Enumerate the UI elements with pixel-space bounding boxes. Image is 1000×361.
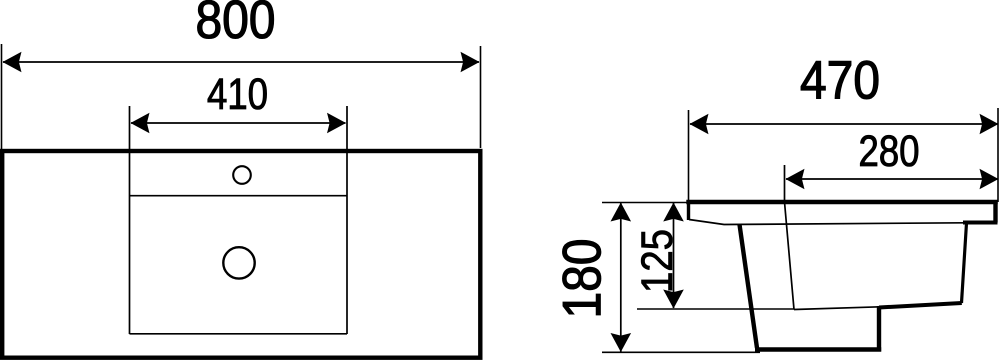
slab right edge (993, 200, 997, 223)
dimension 125: bottom arrowhead (663, 290, 684, 309)
outer rect (basin outline, top view) (2, 151, 480, 358)
inner basin divider line (130, 195, 348, 197)
bowl inner left edge (thin slant) + 280 left extension (785, 165, 795, 310)
dimension 410: left arrowhead (131, 113, 150, 134)
slab underside right (thick silhouette) (963, 221, 998, 225)
inner basin right edge + 410 right extension line (346, 106, 348, 334)
dimension 410: right arrowhead (327, 113, 346, 134)
bowl outer left edge (thick slant) (740, 225, 758, 349)
dimension 180: dimension line (620, 203, 622, 352)
dimension 280: dimension line (786, 178, 998, 180)
dimension 180: top arrowhead (611, 203, 632, 222)
dimension 800: label text (198, 0, 274, 38)
dimension 800: right arrowhead (461, 52, 480, 73)
drain hole (large circle) (223, 247, 254, 278)
dimension 470: left extension line (688, 110, 690, 200)
slab left edge (687, 200, 690, 220)
dimension 470: right extension line (997, 108, 999, 202)
dimension 180: bottom extension line (602, 351, 760, 353)
dimension 180/125: top extension line (602, 202, 688, 204)
dimension 800: right extension line (480, 46, 482, 148)
dimension 800: dimension line (3, 61, 479, 63)
dimension 470: dimension line (690, 123, 998, 125)
bowl inner bottom (thin slant) (794, 307, 880, 310)
dimension 280: left arrowhead (786, 169, 805, 190)
dimension 180: bottom arrowhead (611, 333, 632, 352)
bowl outer right edge (thick slant) (962, 223, 967, 303)
dimension 800: left extension line (1, 44, 3, 149)
dimension 125: dimension line (673, 203, 675, 308)
dimension 280: label text (860, 135, 918, 166)
dimension 125: top arrowhead (663, 203, 684, 222)
faucet hole (small circle) (233, 166, 251, 184)
slab underside (thin) (689, 220, 964, 225)
dimension 125: bottom extension line (637, 308, 794, 310)
dimension 470: right arrowhead (980, 114, 999, 135)
inner basin left edge + 410 left extension line (129, 106, 131, 334)
dimension 800: left arrowhead (3, 52, 22, 73)
pedestal bottom edge (thick) (755, 347, 881, 351)
inner basin bottom edge (130, 333, 348, 335)
dimension 470: left arrowhead (690, 114, 709, 135)
dimension 280: right arrowhead (980, 169, 999, 190)
bowl underside right (thick slant) (879, 303, 962, 308)
dimension 180: label text (rotated) (563, 240, 601, 314)
dimension 125: label text (rotated) (641, 231, 672, 291)
dimension 410: dimension line (131, 122, 346, 124)
slab top edge (thick) (686, 200, 997, 204)
dimension 470: label text (801, 61, 878, 99)
dimension 410: label text (208, 78, 267, 109)
pedestal right edge (thick) (877, 306, 881, 352)
